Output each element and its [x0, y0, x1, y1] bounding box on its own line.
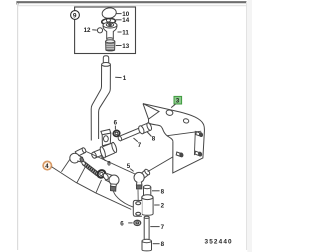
svg-text:13: 13	[122, 43, 129, 50]
bracket stud mid-right	[195, 151, 202, 156]
svg-text:14: 14	[122, 17, 129, 24]
assembly line ball joint 5 to bracket	[148, 145, 193, 171]
frame left border	[17, 3, 19, 250]
svg-text:352440: 352440	[205, 239, 233, 246]
lever 1	[91, 56, 110, 141]
leader line to bush 6 lower-left of hub	[101, 156, 106, 161]
housing side plate	[133, 200, 142, 216]
leader dash 8 bottom	[153, 243, 160, 245]
leader dash 1	[115, 76, 121, 78]
bracket stud mid-left	[176, 152, 183, 157]
assembly line ball joint A to ball joint 5	[85, 151, 136, 175]
pivot plate	[101, 129, 111, 146]
leader dash 7 lower	[150, 226, 159, 228]
svg-text:6: 6	[120, 220, 124, 227]
svg-text:1: 1	[123, 75, 127, 82]
washer 14	[101, 18, 115, 25]
bush 8 bottom	[142, 239, 152, 251]
frame top shadow	[17, 5, 246, 7]
bush 8 on rod 7	[138, 122, 153, 134]
leader dash 6 upper	[114, 126, 116, 130]
circled item 4	[43, 161, 51, 170]
inset box	[75, 7, 136, 54]
leader dash 8 rod end	[147, 132, 152, 137]
assembly line stud 5 to plate hole	[137, 190, 139, 202]
hub cylinder	[91, 142, 118, 159]
svg-text:7: 7	[161, 224, 165, 231]
bush 8 top of part 2	[143, 185, 150, 195]
svg-text:9: 9	[73, 13, 77, 20]
svg-text:7: 7	[138, 142, 142, 149]
page margin right	[247, 0, 252, 252]
frame right border	[246, 2, 248, 250]
label 3 green tag	[171, 96, 181, 107]
washer B (group 4)	[96, 169, 107, 179]
leader dash 8 top	[152, 190, 160, 192]
leader dash 7 upper	[134, 138, 138, 142]
frame top border	[18, 2, 247, 4]
boot 13	[106, 40, 115, 51]
ball joint C (group 4)	[102, 173, 119, 192]
washer 6 lower	[134, 220, 141, 225]
svg-text:11: 11	[122, 29, 129, 36]
leader dash 10	[116, 13, 122, 15]
nut 6 upper	[113, 130, 121, 138]
svg-text:8: 8	[152, 135, 156, 142]
ring 12	[97, 28, 102, 33]
ball joint 5	[134, 168, 151, 189]
rod 7 upper	[118, 128, 141, 142]
leader dash 5	[130, 169, 133, 172]
bracket stud top-right	[196, 132, 203, 137]
leader dash 12	[92, 29, 97, 31]
svg-text:8: 8	[161, 241, 165, 248]
leader dash 11	[118, 31, 122, 33]
housing cylinder 2	[142, 195, 153, 216]
socket 11	[103, 22, 117, 40]
circled item 9	[71, 11, 80, 20]
svg-text:2: 2	[161, 203, 165, 210]
leader dash 2	[154, 204, 159, 206]
leader dash 13	[116, 45, 122, 47]
assembly line ball joint C stud to housing plate	[113, 191, 133, 207]
threaded rod (group 4)	[81, 161, 100, 177]
leader dash 6 lower	[128, 222, 132, 224]
ball joint A (group 4)	[70, 147, 87, 163]
svg-text:12: 12	[84, 27, 91, 34]
bracket 3	[143, 104, 204, 173]
leader comb for 4	[52, 159, 132, 209]
leader dash 14	[116, 19, 122, 21]
svg-text:8: 8	[161, 188, 165, 195]
knob 10	[101, 7, 117, 20]
pin 7 lower	[144, 216, 149, 239]
svg-text:6: 6	[114, 120, 118, 127]
